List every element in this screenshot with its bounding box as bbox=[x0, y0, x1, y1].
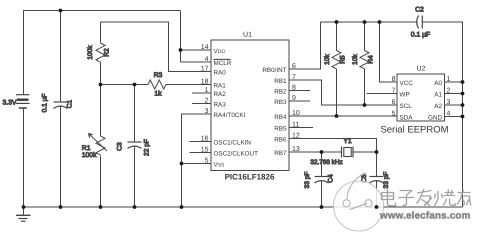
svg-text:RB3: RB3 bbox=[274, 99, 287, 106]
svg-text:VSS: VSS bbox=[214, 162, 226, 169]
wire: bottom ground rail bbox=[23, 206, 463, 208]
svg-text:R5: R5 bbox=[340, 55, 347, 64]
wire: RB1 to SCL bbox=[289, 80, 397, 105]
svg-text:9: 9 bbox=[292, 95, 296, 102]
svg-text:www.elecfans.com: www.elecfans.com bbox=[379, 211, 471, 222]
node: A2 junction bbox=[461, 103, 465, 107]
crystal Y1 bbox=[342, 147, 377, 158]
wire: R4 bottom to SCL bbox=[364, 69, 366, 105]
svg-text:MCLR: MCLR bbox=[214, 60, 232, 67]
node: C4/RB7 junction bbox=[320, 150, 324, 154]
svg-text:15: 15 bbox=[201, 147, 209, 154]
svg-text:33 pF: 33 pF bbox=[304, 172, 311, 189]
wire: battery bottom drop bbox=[23, 108, 25, 207]
wire: VDD/MCLR drop from rail bbox=[180, 11, 182, 63]
wire: R1 bottom drop bbox=[100, 156, 102, 207]
node: ground rail junctions bbox=[22, 205, 26, 209]
svg-text:1: 1 bbox=[205, 87, 209, 94]
svg-text:RA3: RA3 bbox=[214, 102, 227, 109]
svg-text:3: 3 bbox=[447, 99, 451, 106]
svg-text:RB0/INT: RB0/INT bbox=[262, 67, 286, 74]
svg-text:RB7: RB7 bbox=[274, 150, 287, 157]
MCLR overline bbox=[214, 58, 231, 60]
pin numbers U2 left bbox=[392, 76, 396, 118]
svg-text:VCC: VCC bbox=[400, 80, 414, 87]
wire: C1 top drop bbox=[60, 11, 62, 103]
svg-text:PIC16LF1826: PIC16LF1826 bbox=[225, 173, 275, 182]
resistor R2 bbox=[96, 43, 105, 62]
glyph you bbox=[457, 190, 471, 206]
IC U2 labels bbox=[380, 66, 448, 136]
svg-text:2: 2 bbox=[447, 88, 451, 95]
wire: R4 top stub bbox=[364, 22, 366, 51]
svg-text:U2: U2 bbox=[417, 66, 426, 73]
svg-text:VDD: VDD bbox=[214, 48, 226, 55]
svg-text:Y1: Y1 bbox=[343, 138, 352, 145]
svg-text:A2: A2 bbox=[434, 103, 442, 110]
svg-text:RA0: RA0 bbox=[214, 70, 227, 77]
ground bbox=[16, 207, 31, 221]
svg-text:RA4/T0CKI: RA4/T0CKI bbox=[214, 112, 246, 119]
node: C5 ground junction (over watermark) bbox=[375, 205, 379, 209]
pin numbers U2 right bbox=[447, 76, 451, 118]
svg-text:RA2: RA2 bbox=[214, 91, 227, 98]
svg-text:32.768 kHz: 32.768 kHz bbox=[310, 159, 342, 166]
battery BT1 3.3V bbox=[16, 95, 30, 108]
wire: C1 bottom drop bbox=[60, 106, 62, 207]
IC U1 labels bbox=[225, 32, 275, 182]
svg-text:GND: GND bbox=[428, 115, 442, 122]
wire: RB3 stub bbox=[289, 100, 310, 102]
wire: battery top drop bbox=[23, 11, 25, 95]
wire: C4 drop from RB7 line bbox=[321, 152, 323, 177]
wire: MCLR pin lead bbox=[181, 61, 212, 63]
svg-text:33 pF: 33 pF bbox=[383, 172, 390, 189]
node: A1 junction bbox=[461, 92, 465, 96]
svg-text:1k: 1k bbox=[154, 91, 162, 98]
node: R2/R1 node junction bbox=[99, 83, 103, 87]
glyph dian bbox=[382, 190, 396, 206]
wire: A2 pin lead bbox=[445, 104, 463, 106]
svg-text:6: 6 bbox=[392, 99, 396, 106]
glyph shao bbox=[435, 190, 456, 206]
svg-text:100k: 100k bbox=[87, 45, 94, 60]
svg-text:RB6: RB6 bbox=[274, 137, 287, 144]
wire: RB4 to SDA bbox=[289, 115, 397, 117]
IC U2 Serial EEPROM body bbox=[397, 74, 445, 121]
svg-text:SDA: SDA bbox=[400, 115, 414, 122]
svg-text:RB4: RB4 bbox=[274, 114, 287, 121]
svg-text:4: 4 bbox=[447, 111, 451, 118]
pin names U2 left bbox=[400, 80, 414, 122]
wire: R2 top stub bbox=[100, 22, 102, 43]
capacitor C5 bbox=[370, 177, 384, 184]
node: A0 junction bbox=[461, 80, 465, 84]
svg-text:22 pF: 22 pF bbox=[144, 139, 151, 156]
capacitor C4 bbox=[315, 177, 329, 184]
wire: node to R1 bbox=[100, 85, 102, 137]
svg-text:18: 18 bbox=[201, 79, 209, 86]
capacitor C2 bbox=[417, 16, 423, 29]
svg-text:U1: U1 bbox=[243, 32, 252, 39]
watermark chinese glyphs (drawn strokes) bbox=[382, 189, 472, 206]
node: C3 node junction bbox=[133, 83, 137, 87]
node: R4/SCL junction bbox=[363, 103, 367, 107]
svg-text:RB2: RB2 bbox=[274, 89, 287, 96]
wire: WP stub bbox=[367, 93, 398, 95]
svg-text:R3: R3 bbox=[154, 72, 163, 79]
wire: RB0 to rail2 bbox=[289, 22, 321, 69]
svg-text:16: 16 bbox=[201, 136, 209, 143]
svg-text:C1: C1 bbox=[67, 99, 74, 108]
wire: top right rail (EEPROM supply) bbox=[321, 21, 418, 23]
svg-text:OSC1/CLKIN: OSC1/CLKIN bbox=[214, 140, 252, 147]
wire: rail2 right segment and right drop bbox=[422, 22, 462, 207]
svg-text:10: 10 bbox=[292, 110, 300, 117]
wire: C4 bottom drop bbox=[321, 181, 323, 207]
resistor R5 bbox=[332, 51, 341, 69]
wire: OSC2 stub bbox=[190, 152, 212, 154]
svg-text:OSC2/CLKOUT: OSC2/CLKOUT bbox=[214, 151, 259, 158]
svg-text:SCL: SCL bbox=[400, 103, 413, 110]
svg-text:WP: WP bbox=[400, 92, 410, 99]
svg-text:C2: C2 bbox=[415, 7, 424, 14]
svg-text:100k: 100k bbox=[82, 152, 97, 159]
svg-text:8: 8 bbox=[292, 85, 296, 92]
svg-text:13: 13 bbox=[292, 146, 300, 153]
wire: R5 bottom to SDA bbox=[336, 69, 338, 116]
svg-text:0.1 µF: 0.1 µF bbox=[42, 94, 49, 113]
svg-text:12: 12 bbox=[292, 133, 300, 140]
svg-text:R4: R4 bbox=[368, 55, 375, 64]
pin names U1 left bbox=[214, 48, 259, 169]
resistor R3 bbox=[148, 80, 166, 89]
svg-text:3: 3 bbox=[205, 108, 209, 115]
svg-text:5: 5 bbox=[392, 111, 396, 118]
glyph zi bbox=[399, 191, 415, 206]
resistor R4 bbox=[360, 51, 369, 69]
node: VCC rail junction bbox=[378, 20, 382, 24]
pin names U1 right bbox=[262, 67, 287, 157]
svg-text:10k: 10k bbox=[324, 53, 331, 64]
svg-text:17: 17 bbox=[201, 66, 209, 73]
node: GND pin junction bbox=[461, 115, 465, 119]
node line (RC node) bbox=[101, 84, 149, 86]
wire: C5 bottom drop bbox=[376, 181, 378, 207]
wire: R5 top stub bbox=[336, 22, 338, 51]
svg-text:1: 1 bbox=[447, 76, 451, 83]
svg-text:0.1 µF: 0.1 µF bbox=[411, 32, 430, 39]
wire: GND pin lead bbox=[445, 116, 463, 118]
wire: node to C3 bbox=[134, 85, 136, 143]
node: R5 rail junction bbox=[335, 20, 339, 24]
wire: RA2 stub bbox=[192, 92, 211, 94]
pin numbers U1 right bbox=[292, 63, 300, 153]
pin names U2 right bbox=[428, 80, 442, 122]
wire: C3 bottom drop bbox=[134, 146, 136, 207]
wire: RA4 to ground column bbox=[182, 114, 212, 207]
svg-text:7: 7 bbox=[392, 88, 396, 95]
wire: RB6 to crystal right bbox=[289, 139, 377, 177]
IC U1 PIC16LF1826 body bbox=[211, 40, 289, 171]
node: R4 rail junction bbox=[363, 20, 367, 24]
svg-text:10k: 10k bbox=[352, 53, 359, 64]
node: C5/crystal junction bbox=[375, 150, 379, 154]
svg-text:8: 8 bbox=[392, 76, 396, 83]
svg-text:R2: R2 bbox=[104, 48, 111, 57]
capacitor C3 bbox=[128, 142, 142, 149]
wire: R2 top line to RA0 bbox=[101, 22, 212, 72]
wire: VSS pin lead bbox=[182, 163, 212, 165]
svg-text:11: 11 bbox=[292, 122, 299, 129]
svg-text:6: 6 bbox=[292, 63, 296, 70]
wire: VCC drop to U2 bbox=[380, 22, 398, 82]
glyph fa bbox=[417, 189, 433, 206]
svg-text:5: 5 bbox=[205, 158, 209, 165]
resistor R1 (variable) bbox=[89, 134, 108, 156]
wire: RB5 stub bbox=[289, 127, 313, 129]
svg-text:3.3V: 3.3V bbox=[3, 100, 17, 107]
wire: OSC1 stub bbox=[190, 141, 212, 143]
wire: RB7 to crystal left bbox=[289, 151, 342, 153]
wire: R2 bottom to node bbox=[100, 62, 102, 84]
node: C1/rail junction bbox=[59, 9, 63, 13]
svg-text:4: 4 bbox=[205, 56, 209, 63]
svg-text:RA1: RA1 bbox=[214, 83, 227, 90]
svg-text:RB5: RB5 bbox=[274, 126, 287, 133]
wire: A1 pin lead bbox=[445, 93, 463, 95]
svg-text:A0: A0 bbox=[434, 80, 442, 87]
svg-text:A1: A1 bbox=[434, 92, 442, 99]
wire: RA3 stub bbox=[192, 103, 211, 105]
wire: top VDD rail bbox=[23, 10, 180, 12]
svg-text:C4: C4 bbox=[328, 174, 335, 183]
svg-text:2: 2 bbox=[205, 98, 209, 105]
node: R5/SDA junction bbox=[335, 114, 339, 118]
watermark logo circle bbox=[334, 173, 384, 232]
svg-text:C3: C3 bbox=[117, 142, 124, 151]
node: VDD junction bbox=[179, 48, 183, 52]
node: VSS junction bbox=[180, 162, 184, 166]
wire: A0 pin lead bbox=[445, 81, 463, 83]
pin numbers U1 left bbox=[201, 44, 209, 165]
svg-text:Serial EEPROM: Serial EEPROM bbox=[380, 125, 448, 136]
svg-text:RB1: RB1 bbox=[274, 78, 287, 85]
svg-text:R1: R1 bbox=[82, 145, 91, 152]
wire: VDD pin lead bbox=[181, 49, 212, 51]
capacitor C1 bbox=[54, 102, 68, 109]
wire: RB2 stub bbox=[289, 90, 310, 92]
wire: R3 to RA1 bbox=[166, 84, 211, 86]
svg-text:14: 14 bbox=[201, 44, 209, 51]
svg-text:7: 7 bbox=[292, 74, 296, 81]
